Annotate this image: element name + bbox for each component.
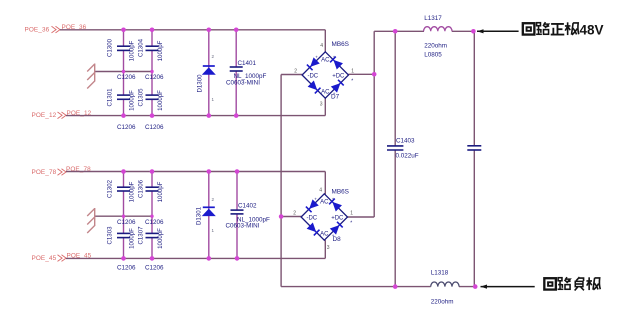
junction dots top rail (121, 28, 126, 33)
wire output positive (black) (477, 29, 484, 33)
svg-text:C1306: C1306 (138, 179, 145, 198)
junction dot C1403 bottom (393, 284, 398, 289)
svg-text:C1206: C1206 (117, 219, 136, 226)
svg-text:L0805: L0805 (424, 52, 442, 59)
wire POE_12 rail (66, 115, 325, 117)
wire bottom rail left (281, 286, 431, 288)
svg-text:-DC: -DC (307, 73, 318, 79)
wire D1300 branch (208, 30, 210, 116)
svg-text:AC: AC (320, 232, 329, 238)
svg-text:AC: AC (320, 200, 329, 206)
wire C1304/C1305 leads (151, 30, 153, 46)
svg-text:48V: 48V (580, 23, 604, 38)
svg-text:1000pF: 1000pF (129, 181, 136, 202)
svg-text:*: * (350, 221, 352, 227)
svg-text:C1206: C1206 (145, 124, 164, 131)
svg-text:+: + (332, 197, 335, 202)
wire bottom cap-bank middle (95, 215, 152, 217)
svg-text:1000pF: 1000pF (157, 181, 164, 202)
bridge D8 diode bottom-right (330, 222, 343, 235)
bridge D8 diode bottom-left (307, 223, 320, 236)
svg-text:AC: AC (321, 90, 330, 96)
svg-text:POE_36: POE_36 (25, 27, 50, 34)
wire D8 +DC branch (347, 216, 374, 218)
wire C1306/C1307 leads (151, 172, 153, 188)
capacitor C1300 (117, 45, 130, 47)
bridge D8 diode top-right (329, 198, 342, 211)
junction dots top middle wire (122, 70, 125, 73)
bridge D7 diode bottom-right (331, 80, 344, 93)
svg-text:POE_45: POE_45 (32, 255, 57, 262)
svg-text:D7: D7 (331, 94, 340, 101)
inductor L1318 (431, 282, 459, 287)
ground bottom (87, 208, 95, 233)
capacitor C1301 (117, 94, 130, 96)
svg-text:4: 4 (320, 43, 323, 49)
wire D7 +DC to riser (348, 73, 374, 75)
junction dots POE_45 rail (121, 256, 126, 261)
svg-text:L1318: L1318 (431, 270, 449, 277)
svg-text:C1206: C1206 (145, 265, 164, 272)
svg-text:MB6S: MB6S (332, 189, 349, 196)
wire +DC riser (373, 31, 375, 217)
wire C1302/C1303 leads (123, 172, 125, 188)
junction dot L1317 out (471, 29, 476, 34)
wire D1301 branch (208, 172, 210, 259)
wire L1317 to junction (452, 30, 474, 32)
svg-text:4: 4 (319, 188, 322, 194)
svg-text:D1300: D1300 (197, 74, 204, 93)
junction dot -DC node (279, 214, 284, 219)
bridge rectifier U-D7 outline (302, 52, 348, 98)
junction dots POE_78 rail (121, 169, 126, 174)
wire output negative (black) (481, 285, 488, 289)
diode D1300 (202, 67, 216, 75)
svg-text:-DC: -DC (306, 215, 317, 221)
junction dots POE_12 rail (121, 113, 126, 118)
svg-text:MB6S: MB6S (332, 41, 349, 48)
bridge D7 diode bottom-left (308, 81, 321, 94)
svg-text:C1401: C1401 (238, 60, 257, 67)
junction dot +DC node (372, 72, 377, 77)
diode D1301 (202, 209, 216, 217)
svg-text:1000pF: 1000pF (157, 90, 164, 111)
svg-text:C1206: C1206 (145, 74, 164, 81)
svg-text:1: 1 (351, 69, 354, 75)
wire C1300/C1301 leads (123, 30, 125, 46)
capacitor C1307 (146, 232, 159, 234)
bridge D7 diode top-right (330, 56, 343, 69)
capacitor filter right (467, 145, 481, 147)
ground top (87, 64, 95, 89)
inductor L1317 (424, 27, 452, 32)
wire top cap-bank middle (95, 71, 152, 73)
junction dot bottom right (473, 284, 478, 289)
junction dot C1403 top (393, 29, 398, 34)
wire right filter cap branch (473, 31, 475, 146)
svg-text:*: * (351, 79, 353, 85)
svg-text:C1206: C1206 (117, 265, 136, 272)
junction dots bottom middle wire (122, 215, 125, 218)
bridge rectifier U-D8 outline (301, 194, 347, 240)
svg-text:C1304: C1304 (138, 38, 145, 57)
svg-text:C0603-MINI: C0603-MINI (226, 80, 260, 87)
wire POE_78 rail (66, 171, 325, 173)
bridge D7 diode top-left (307, 57, 320, 70)
svg-text:C1402: C1402 (238, 203, 257, 210)
svg-text:220ohm: 220ohm (431, 299, 454, 306)
svg-text:2: 2 (293, 211, 296, 217)
svg-text:C1303: C1303 (107, 226, 114, 245)
svg-text:220ohm: 220ohm (424, 43, 447, 50)
wire bottom rail right (459, 286, 475, 288)
svg-text:C1206: C1206 (117, 124, 136, 131)
svg-text:C1305: C1305 (138, 88, 145, 107)
svg-text:2: 2 (294, 69, 297, 75)
svg-text:D1301: D1301 (196, 206, 203, 225)
svg-text:+: + (315, 55, 318, 60)
svg-text:C0603-MINI: C0603-MINI (226, 223, 260, 230)
wire C1402 branch (236, 172, 238, 211)
wire D7 -DC to bottom rail (281, 74, 303, 76)
capacitor C1306 (146, 186, 159, 188)
svg-text:C1307: C1307 (138, 226, 145, 245)
capacitor C1304 (146, 45, 159, 47)
capacitor C1303 (117, 232, 130, 234)
svg-text:1: 1 (350, 211, 353, 217)
bridge D8 diode top-left (306, 199, 319, 212)
svg-text:1000pF: 1000pF (157, 228, 164, 249)
svg-text:L1317: L1317 (424, 15, 442, 22)
svg-text:POE_12: POE_12 (32, 112, 57, 119)
wire D8 -DC branch (281, 216, 302, 218)
capacitor C1302 (117, 186, 130, 188)
svg-text:C1301: C1301 (107, 88, 114, 107)
svg-text:+DC: +DC (331, 215, 344, 221)
wire top rail to L1317 (374, 30, 424, 32)
svg-text:1000pF: 1000pF (129, 228, 136, 249)
svg-text:POE_78: POE_78 (32, 169, 57, 176)
wire POE_36 rail (60, 29, 325, 31)
svg-text:1000pF: 1000pF (129, 40, 136, 61)
svg-text:+: + (314, 197, 317, 202)
svg-text:+: + (333, 55, 336, 60)
svg-text:0.022uF: 0.022uF (396, 153, 419, 160)
svg-text:1000pF: 1000pF (129, 90, 136, 111)
wire C1403 branch (394, 31, 396, 146)
svg-text:1000pF: 1000pF (157, 40, 164, 61)
wire POE_45 rail (66, 257, 325, 259)
wire C1401 branch (235, 30, 237, 67)
svg-text:D8: D8 (333, 236, 342, 243)
svg-text:C1206: C1206 (145, 219, 164, 226)
svg-text:AC: AC (321, 58, 330, 64)
capacitor C1401 (230, 66, 243, 68)
net label output negative 回路负极 (544, 277, 600, 290)
svg-text:+DC: +DC (332, 73, 345, 79)
capacitor C1305 (146, 94, 159, 96)
capacitor C1402 (231, 209, 244, 211)
svg-text:C1206: C1206 (117, 74, 136, 81)
svg-text:C1403: C1403 (396, 138, 415, 145)
svg-text:3: 3 (327, 245, 330, 251)
svg-text:3: 3 (320, 102, 323, 108)
svg-text:C1300: C1300 (107, 38, 114, 57)
net label output positive 回路正极48V (523, 22, 604, 37)
capacitor C1403 (387, 145, 403, 147)
svg-text:C1302: C1302 (107, 179, 114, 198)
